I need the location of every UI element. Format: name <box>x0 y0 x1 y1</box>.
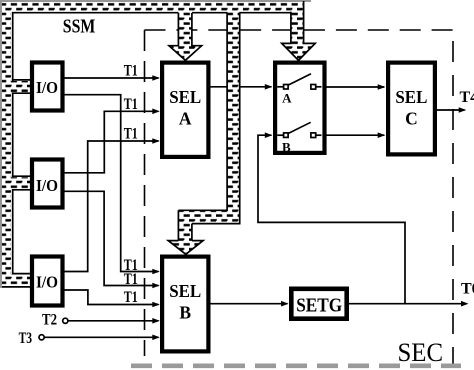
arrowhead T4 output <box>459 107 467 113</box>
SSM branch outline to I/O3 <box>2 274 30 287</box>
wire T3 to SEL B in5 <box>44 336 158 338</box>
svg-text:T1: T1 <box>124 126 138 143</box>
svg-text:SEL: SEL <box>169 87 201 107</box>
arrowhead SEL B in4 <box>152 318 160 324</box>
wire T1 I/O3 to SEL B in3 <box>65 290 159 305</box>
switch B blade <box>288 122 311 133</box>
switch A output stub <box>316 86 322 88</box>
block SEL C <box>388 63 435 155</box>
svg-text:I/O: I/O <box>36 273 58 292</box>
wire SETG out T0 <box>349 303 467 305</box>
block I/O 1 <box>32 63 63 111</box>
switch A right contact <box>311 85 316 90</box>
arrowhead SEL A in3 <box>152 138 160 144</box>
switch A input stub <box>277 86 283 88</box>
SSM branch outline to I/O2 <box>12 176 30 190</box>
SSM branch outline to I/O1 <box>12 80 30 93</box>
wire T1 I/O3 to SEL A in3 <box>65 141 159 272</box>
wire switch A out to SEL C in1 <box>327 86 385 88</box>
svg-text:C: C <box>405 108 418 128</box>
hollow arrow into SEL B outline <box>168 241 203 255</box>
switch B left contact <box>284 133 289 138</box>
hollow arrow into SEL A fill <box>169 2 202 60</box>
SSM stipple path to SEL B outline <box>178 13 239 241</box>
wire SEL A out to switch A <box>211 86 272 88</box>
arrowhead SEL B in1 <box>152 269 160 275</box>
svg-text:T1: T1 <box>124 96 138 113</box>
SEC dashed boundary right <box>452 41 454 364</box>
wire T1 I/O1 to SEL A in1 <box>65 77 159 79</box>
gray page edge left <box>0 0 2 288</box>
switch B right contact <box>311 133 316 138</box>
svg-text:I/O: I/O <box>36 176 58 195</box>
SEC dashed boundary bottom gray <box>131 363 461 368</box>
terminal circle T2 <box>63 318 68 323</box>
arrowhead SEL C in2 <box>378 132 386 138</box>
hollow arrow into SEL A stipple <box>169 2 202 60</box>
svg-text:SETG: SETG <box>296 296 342 317</box>
SSM stipple path to SEL B pattern <box>168 2 239 254</box>
block switch box <box>275 63 324 153</box>
svg-text:T1: T1 <box>124 271 138 288</box>
switch A blade <box>288 74 311 85</box>
wire T1 I/O1 to SEL B in1 <box>65 95 159 272</box>
svg-text:B: B <box>282 140 291 155</box>
hollow arrow into SEL A outline <box>169 13 202 60</box>
wire switch B out to SEL C in2 <box>327 134 385 136</box>
arrowhead SEL A in1 <box>152 75 160 81</box>
wire SEL B out to SETG <box>211 303 288 305</box>
arrowhead SEL B in5 <box>152 335 160 341</box>
switch B input stub <box>277 134 283 136</box>
wire T1 I/O2 to SEL B in2 <box>65 191 159 285</box>
hollow arrow into switch box fill <box>282 2 316 60</box>
arrowhead T0 output <box>461 301 469 307</box>
arrowhead SETG input <box>281 301 289 307</box>
SSM stipple band pattern <box>2 2 303 287</box>
svg-text:T4: T4 <box>460 89 474 106</box>
svg-text:SEC: SEC <box>398 338 444 367</box>
arrowhead SEL A in2 <box>152 109 160 115</box>
svg-text:T0: T0 <box>461 281 474 298</box>
wire SEL C out T4 <box>437 109 465 111</box>
block I/O 2 <box>32 160 63 208</box>
wire feedback from T0 node to switch B <box>258 135 405 304</box>
block SEL B <box>162 257 208 352</box>
arrowhead SEL B in2 <box>152 283 160 289</box>
svg-text:T1: T1 <box>124 289 138 306</box>
SSM inner solid border line <box>13 13 292 274</box>
wire T2 to SEL B in4 <box>68 320 159 322</box>
SSM stipple band white underlay <box>2 2 303 287</box>
arrowhead switch B input <box>265 132 273 138</box>
svg-text:T1: T1 <box>124 63 138 80</box>
svg-text:SEL: SEL <box>169 281 201 301</box>
arrowhead SEL B in3 <box>152 302 160 308</box>
switch B output stub <box>316 134 322 136</box>
gray page edge top <box>0 0 311 2</box>
block SETG <box>291 289 346 319</box>
svg-text:SSM: SSM <box>63 15 96 37</box>
terminal circle T3 <box>39 335 44 340</box>
SEC dashed boundary left <box>144 30 146 356</box>
hollow arrow into switch box stipple <box>282 2 316 60</box>
hollow arrow into switch box outline <box>282 1 316 60</box>
svg-text:T3: T3 <box>19 330 32 347</box>
block SEL A <box>162 63 208 157</box>
svg-text:T2: T2 <box>42 312 57 329</box>
arrowhead switch A input <box>265 84 273 90</box>
svg-text:A: A <box>282 90 292 105</box>
block I/O 3 <box>32 257 63 306</box>
svg-text:I/O: I/O <box>36 78 58 97</box>
SEC dashed boundary top <box>145 29 454 31</box>
SSM stipple path to SEL B white underlay <box>168 2 239 254</box>
svg-text:B: B <box>179 302 191 322</box>
wire T1 I/O2 to SEL A in2 <box>65 111 159 173</box>
svg-text:SEL: SEL <box>395 87 427 107</box>
svg-text:A: A <box>179 108 192 128</box>
switch A left contact <box>284 85 289 90</box>
arrowhead SEL C in1 <box>378 84 386 90</box>
